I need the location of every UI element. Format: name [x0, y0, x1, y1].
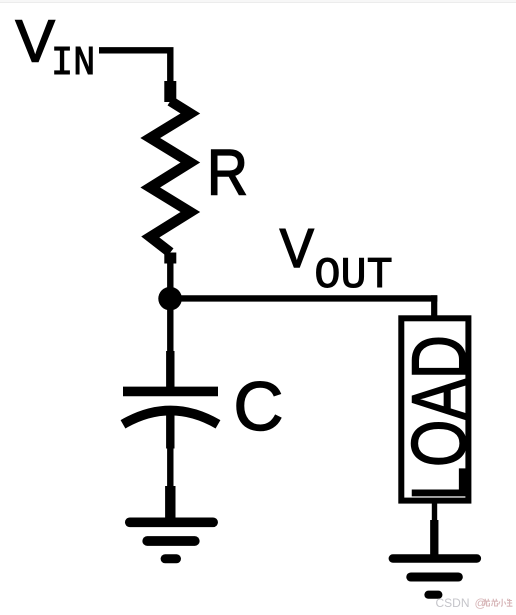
svg-text:IN: IN	[51, 40, 95, 86]
svg-text:R: R	[207, 136, 248, 209]
svg-text:V: V	[280, 218, 315, 279]
svg-text:LOAD: LOAD	[396, 335, 483, 501]
svg-text:V: V	[16, 8, 56, 74]
svg-text:C: C	[234, 368, 284, 445]
svg-text:CSDN: CSDN	[436, 596, 470, 610]
svg-text:OUT: OUT	[314, 252, 392, 301]
